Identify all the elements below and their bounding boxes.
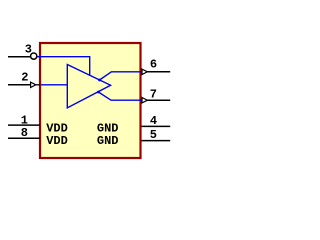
wire from upper edge to pin 6	[100, 72, 142, 80]
pin 2 input marker	[31, 82, 36, 87]
pin 4 wire	[142, 125, 171, 127]
pin 7 output marker	[142, 98, 147, 103]
pin 3 wire (black)	[8, 56, 30, 58]
pin 1 wire	[8, 124, 40, 126]
svg-text:5: 5	[150, 128, 157, 142]
svg-text:2: 2	[21, 71, 28, 85]
svg-text:6: 6	[150, 58, 157, 72]
pin 7 wire (black)	[147, 99, 170, 101]
svg-text:3: 3	[25, 42, 32, 56]
svg-text:7: 7	[150, 88, 157, 102]
wire from pin 3 bubble into body	[37, 57, 89, 76]
junction on upper edge	[98, 79, 101, 82]
pin 2 wire stub to body	[36, 84, 40, 86]
junction on lower edge	[97, 91, 100, 94]
pin 6 output marker	[142, 69, 147, 74]
pin 2 wire (black)	[8, 84, 31, 86]
svg-text:VDD: VDD	[46, 134, 68, 148]
wire from lower edge to pin 7	[98, 92, 141, 100]
svg-text:8: 8	[21, 126, 28, 140]
pin 3 inversion bubble	[31, 53, 37, 59]
pin 8 wire	[8, 137, 40, 139]
wire from pin 2 into buffer input	[41, 84, 67, 86]
svg-text:GND: GND	[97, 134, 119, 148]
svg-text:VDD: VDD	[46, 121, 68, 135]
svg-text:GND: GND	[97, 121, 119, 135]
pin 6 wire (black)	[147, 71, 170, 73]
svg-text:4: 4	[150, 114, 157, 128]
buffer triangle A1	[67, 65, 110, 108]
pin 5 wire	[142, 140, 171, 142]
IC body U1	[40, 43, 141, 158]
